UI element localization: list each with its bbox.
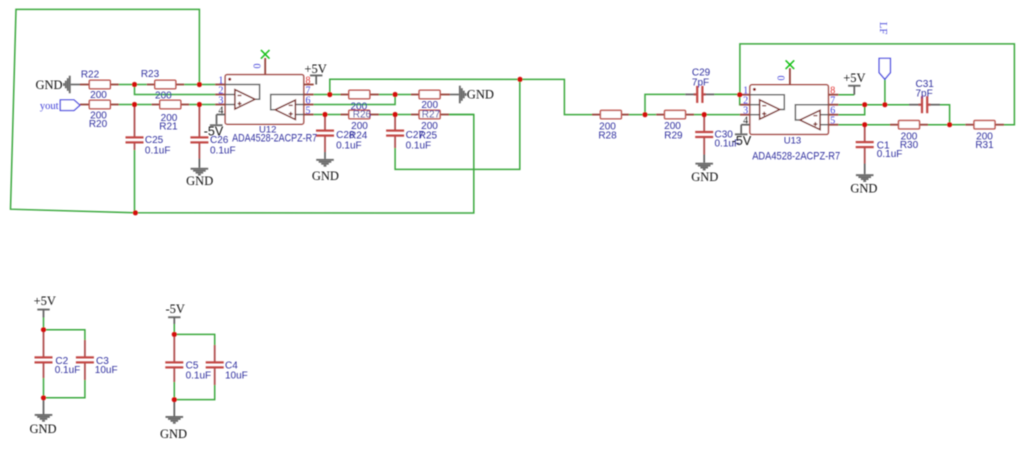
- svg-text:5: 5: [830, 116, 835, 127]
- labels C31: [916, 79, 935, 100]
- labels R25: [419, 121, 439, 142]
- wire U12 pin5: [314, 114, 325, 116]
- resistor R28: [592, 110, 629, 118]
- labels C27: [406, 130, 432, 151]
- junction R26-R27: [393, 92, 398, 97]
- wire C5 bottom: [173, 382, 175, 400]
- power +5V U12: [310, 75, 322, 85]
- svg-text:-5V: -5V: [204, 125, 224, 139]
- wire to U12 pin3: [199, 104, 215, 106]
- svg-text:0.1uF: 0.1uF: [406, 140, 432, 151]
- labels C28: [336, 130, 362, 151]
- junction R30-R31: [947, 122, 952, 127]
- wire to U12 pin1: [199, 84, 215, 86]
- junction U13 out B: [862, 102, 867, 107]
- text ground right of R27: [467, 87, 494, 101]
- power -5V U13: [735, 125, 748, 136]
- svg-text:+5V: +5V: [34, 294, 56, 308]
- wire: [928, 124, 950, 126]
- wire: [694, 114, 704, 116]
- svg-text:0.1uF: 0.1uF: [145, 145, 171, 156]
- capacitor C28: [316, 117, 334, 152]
- no-connect U13 pin0: [786, 60, 795, 69]
- junction node in+: [197, 102, 202, 107]
- resistor R25: [411, 110, 449, 118]
- wire: [950, 124, 966, 126]
- labels C25: [145, 135, 171, 156]
- svg-text:+5V: +5V: [843, 71, 865, 85]
- svg-text:GND: GND: [160, 427, 187, 441]
- svg-text:R29: R29: [664, 130, 683, 141]
- svg-text:GND: GND: [186, 174, 213, 188]
- wire R25 to loop: [449, 114, 474, 116]
- resistor R22: [80, 80, 119, 88]
- junction C2-C3 bottom: [41, 395, 46, 400]
- svg-text:R22: R22: [81, 70, 100, 81]
- wire -5V to node: [173, 324, 175, 334]
- svg-text:0.1uF: 0.1uF: [55, 365, 81, 376]
- resistor R24: [341, 110, 379, 118]
- pin numbers U13: [743, 86, 835, 127]
- svg-text:R23: R23: [141, 69, 160, 80]
- wire: [395, 94, 411, 96]
- wire +5V to node: [43, 318, 45, 330]
- wire: [135, 104, 152, 106]
- svg-text:R31: R31: [975, 140, 994, 151]
- text ground below C5: [160, 427, 187, 441]
- wire: [119, 84, 135, 86]
- capacitor C2: [35, 332, 53, 378]
- resistor R26: [341, 90, 379, 98]
- wire C27 to out2: [395, 79, 520, 169]
- power +5V U13: [848, 85, 860, 95]
- junction U13 pin5: [862, 122, 867, 127]
- text LF: [877, 22, 888, 34]
- wire: [865, 124, 890, 126]
- svg-text:R26: R26: [353, 110, 372, 121]
- wire U13 pin5: [838, 124, 864, 126]
- junction U13 pin1: [737, 92, 742, 97]
- wire R27 to GND: [450, 94, 459, 96]
- wire U12 pin7: [314, 94, 330, 96]
- resistor R30: [890, 121, 928, 129]
- labels C26: [210, 135, 236, 156]
- labels C29: [692, 68, 711, 89]
- wire to LF label: [884, 79, 886, 105]
- text -5V U12: [204, 125, 224, 139]
- capacitor C25: [126, 107, 144, 150]
- svg-text:7pF: 7pF: [692, 77, 709, 88]
- resistor R29: [656, 110, 694, 118]
- resistor R31: [965, 121, 1004, 129]
- labels R24: [349, 121, 368, 142]
- wire out2 to R28: [520, 79, 592, 114]
- capacitor C3: [76, 340, 94, 380]
- svg-text:7pF: 7pF: [916, 89, 933, 100]
- wire C25 bottom: [134, 150, 136, 213]
- reference U12: [259, 124, 276, 135]
- capacitor C30: [695, 117, 713, 155]
- labels R29: [664, 121, 683, 142]
- labels R30: [900, 131, 919, 151]
- resistor R23: [147, 80, 185, 88]
- text ground below C2: [29, 422, 56, 436]
- svg-text:200: 200: [155, 90, 172, 101]
- text power -5V decoupling: [165, 302, 184, 316]
- text ground below C26: [186, 174, 213, 188]
- labels R28: [598, 122, 617, 142]
- svg-text:ADA4528-2ACPZ-R7: ADA4528-2ACPZ-R7: [752, 150, 840, 162]
- labels R26: [350, 101, 371, 120]
- wire out1 loop: [11, 9, 474, 213]
- svg-text:R21: R21: [159, 122, 178, 133]
- labels R22: [81, 70, 107, 102]
- ground below C28: [316, 152, 334, 167]
- svg-text:4: 4: [743, 116, 748, 127]
- svg-text:R28: R28: [598, 130, 617, 141]
- no-connect U12 pin0: [261, 50, 270, 59]
- ground right of R27: [459, 86, 467, 104]
- junction LF: [882, 102, 887, 107]
- svg-text:200: 200: [90, 90, 107, 101]
- svg-text:U13: U13: [784, 135, 801, 146]
- svg-text:GND: GND: [36, 78, 63, 92]
- svg-text:GND: GND: [691, 170, 718, 184]
- svg-text:+5V: +5V: [304, 62, 326, 76]
- hierarchical label LF: [879, 58, 890, 79]
- junction node out1: [197, 82, 202, 87]
- text ground below C28: [312, 169, 339, 183]
- pin 0 label U12: [252, 64, 263, 69]
- junction out2: [327, 92, 332, 97]
- text -5V U13: [732, 134, 752, 148]
- hierarchical label yout: [60, 100, 80, 111]
- resistor R21: [152, 100, 190, 108]
- svg-text:-5V: -5V: [732, 134, 752, 148]
- svg-text:yout: yout: [40, 101, 59, 112]
- capacitor C27: [386, 117, 404, 148]
- wire C31 to R30-R31: [940, 105, 950, 125]
- labels C4: [225, 361, 248, 382]
- junction R28-R29: [642, 112, 647, 117]
- junction node mid1: [132, 82, 137, 87]
- svg-text:0.1uF: 0.1uF: [186, 371, 212, 382]
- text power +5V U13: [843, 71, 865, 85]
- svg-text:5: 5: [306, 105, 311, 116]
- capacitor C4: [206, 345, 224, 385]
- resistor R27: [411, 90, 450, 98]
- svg-text:0.1uF: 0.1uF: [210, 145, 236, 156]
- ground below C1: [856, 164, 874, 182]
- svg-text:GND: GND: [467, 87, 494, 101]
- labels C30: [715, 130, 741, 150]
- labels R20: [89, 111, 108, 130]
- ground below C26: [191, 159, 209, 176]
- value U12: [232, 133, 317, 145]
- resistor R20: [80, 100, 119, 108]
- power +5V decoupling: [37, 309, 49, 318]
- pin numbers U12: [218, 75, 310, 116]
- capacitor C5: [165, 337, 183, 382]
- capacitor C1: [856, 127, 874, 164]
- labels C2: [55, 356, 81, 376]
- wire: [135, 84, 147, 86]
- wire: [379, 94, 395, 96]
- svg-text:0: 0: [252, 64, 263, 69]
- junction pin5: [322, 112, 327, 117]
- text ground below C1: [850, 181, 877, 195]
- pin 0 label U13: [777, 76, 788, 81]
- svg-text:GND: GND: [29, 422, 56, 436]
- svg-text:R27: R27: [422, 110, 441, 121]
- power -5V U12: [210, 115, 223, 127]
- op-amp U12: [215, 58, 314, 124]
- ground below C2: [35, 398, 53, 422]
- wire R28-R29 to C29: [645, 94, 685, 114]
- wire U13 pin7: [838, 104, 864, 106]
- labels C3: [95, 356, 118, 376]
- junction C2-C3 top: [41, 327, 46, 332]
- wire to U13 pin3: [704, 114, 740, 116]
- wire C2 bottom: [43, 378, 45, 398]
- junction R29 out: [702, 112, 707, 117]
- ground below C5: [166, 400, 184, 424]
- svg-text:R30: R30: [900, 140, 919, 151]
- wire: [184, 84, 199, 86]
- labels C5: [186, 361, 212, 382]
- wire C3 bottom: [44, 380, 85, 398]
- text ground GND left of R22: [36, 78, 63, 92]
- svg-text:GND: GND: [850, 181, 877, 195]
- wire: [325, 114, 341, 116]
- wire: [330, 94, 341, 96]
- svg-text:4: 4: [218, 105, 223, 116]
- text power +5V decoupling: [34, 294, 56, 308]
- wire to U12 pin6: [314, 95, 395, 105]
- wire: [379, 114, 395, 116]
- wire jog to U13 pin2: [740, 95, 741, 105]
- wire top loop: [740, 44, 1015, 125]
- junction out2 right: [517, 77, 522, 82]
- capacitor C26: [190, 107, 208, 159]
- power -5V decoupling: [168, 316, 180, 324]
- svg-text:-5V: -5V: [165, 302, 184, 316]
- wire C4 top: [174, 334, 214, 345]
- text power +5V U12: [304, 62, 326, 76]
- value U13: [752, 150, 840, 162]
- svg-text:GND: GND: [312, 169, 339, 183]
- labels R27: [421, 100, 440, 121]
- junction C5-C4 top: [172, 332, 177, 337]
- wire U13 pin8: [838, 94, 854, 96]
- junction node mid2: [132, 102, 137, 107]
- junction C5-C4 bottom: [172, 397, 177, 402]
- wire: [395, 114, 411, 116]
- text ground below C30: [691, 170, 718, 184]
- wire C4 bottom: [174, 385, 214, 400]
- ground below C30: [695, 155, 713, 171]
- labels R31: [975, 131, 994, 151]
- labels R21: [159, 113, 178, 133]
- svg-text:R20: R20: [89, 119, 108, 130]
- labels R23: [141, 69, 172, 101]
- op-amp U13: [740, 68, 839, 134]
- wire: [119, 104, 135, 106]
- wire: [865, 104, 885, 106]
- ground GND left of R22: [63, 76, 71, 94]
- svg-text:0.1uF: 0.1uF: [336, 140, 362, 151]
- reference U13: [784, 135, 801, 146]
- wire C29 to U13 pin1: [714, 93, 739, 95]
- junction C25-loop: [133, 210, 138, 215]
- labels C1: [877, 141, 903, 161]
- text yout: [40, 101, 59, 112]
- wire: [645, 114, 656, 116]
- wire gnd-R22 lead: [71, 84, 80, 86]
- svg-text:10uF: 10uF: [95, 365, 118, 376]
- wire: [629, 114, 645, 116]
- wire: [189, 104, 199, 106]
- junction R24-R25: [393, 112, 398, 117]
- svg-text:0.1uF: 0.1uF: [877, 149, 903, 160]
- capacitor C29: [685, 86, 714, 103]
- wire: [885, 104, 909, 106]
- svg-text:0: 0: [777, 76, 788, 81]
- svg-text:10uF: 10uF: [225, 371, 248, 382]
- svg-text:LF: LF: [877, 22, 888, 34]
- wire mid1 to U12 pin2: [135, 85, 216, 95]
- svg-text:ADA4528-2ACPZ-R7: ADA4528-2ACPZ-R7: [232, 133, 317, 145]
- wire out2 feedback run: [330, 79, 520, 94]
- capacitor C31: [909, 96, 940, 113]
- wire C3 top: [44, 330, 85, 340]
- wire jog to U13 pin6: [838, 105, 864, 115]
